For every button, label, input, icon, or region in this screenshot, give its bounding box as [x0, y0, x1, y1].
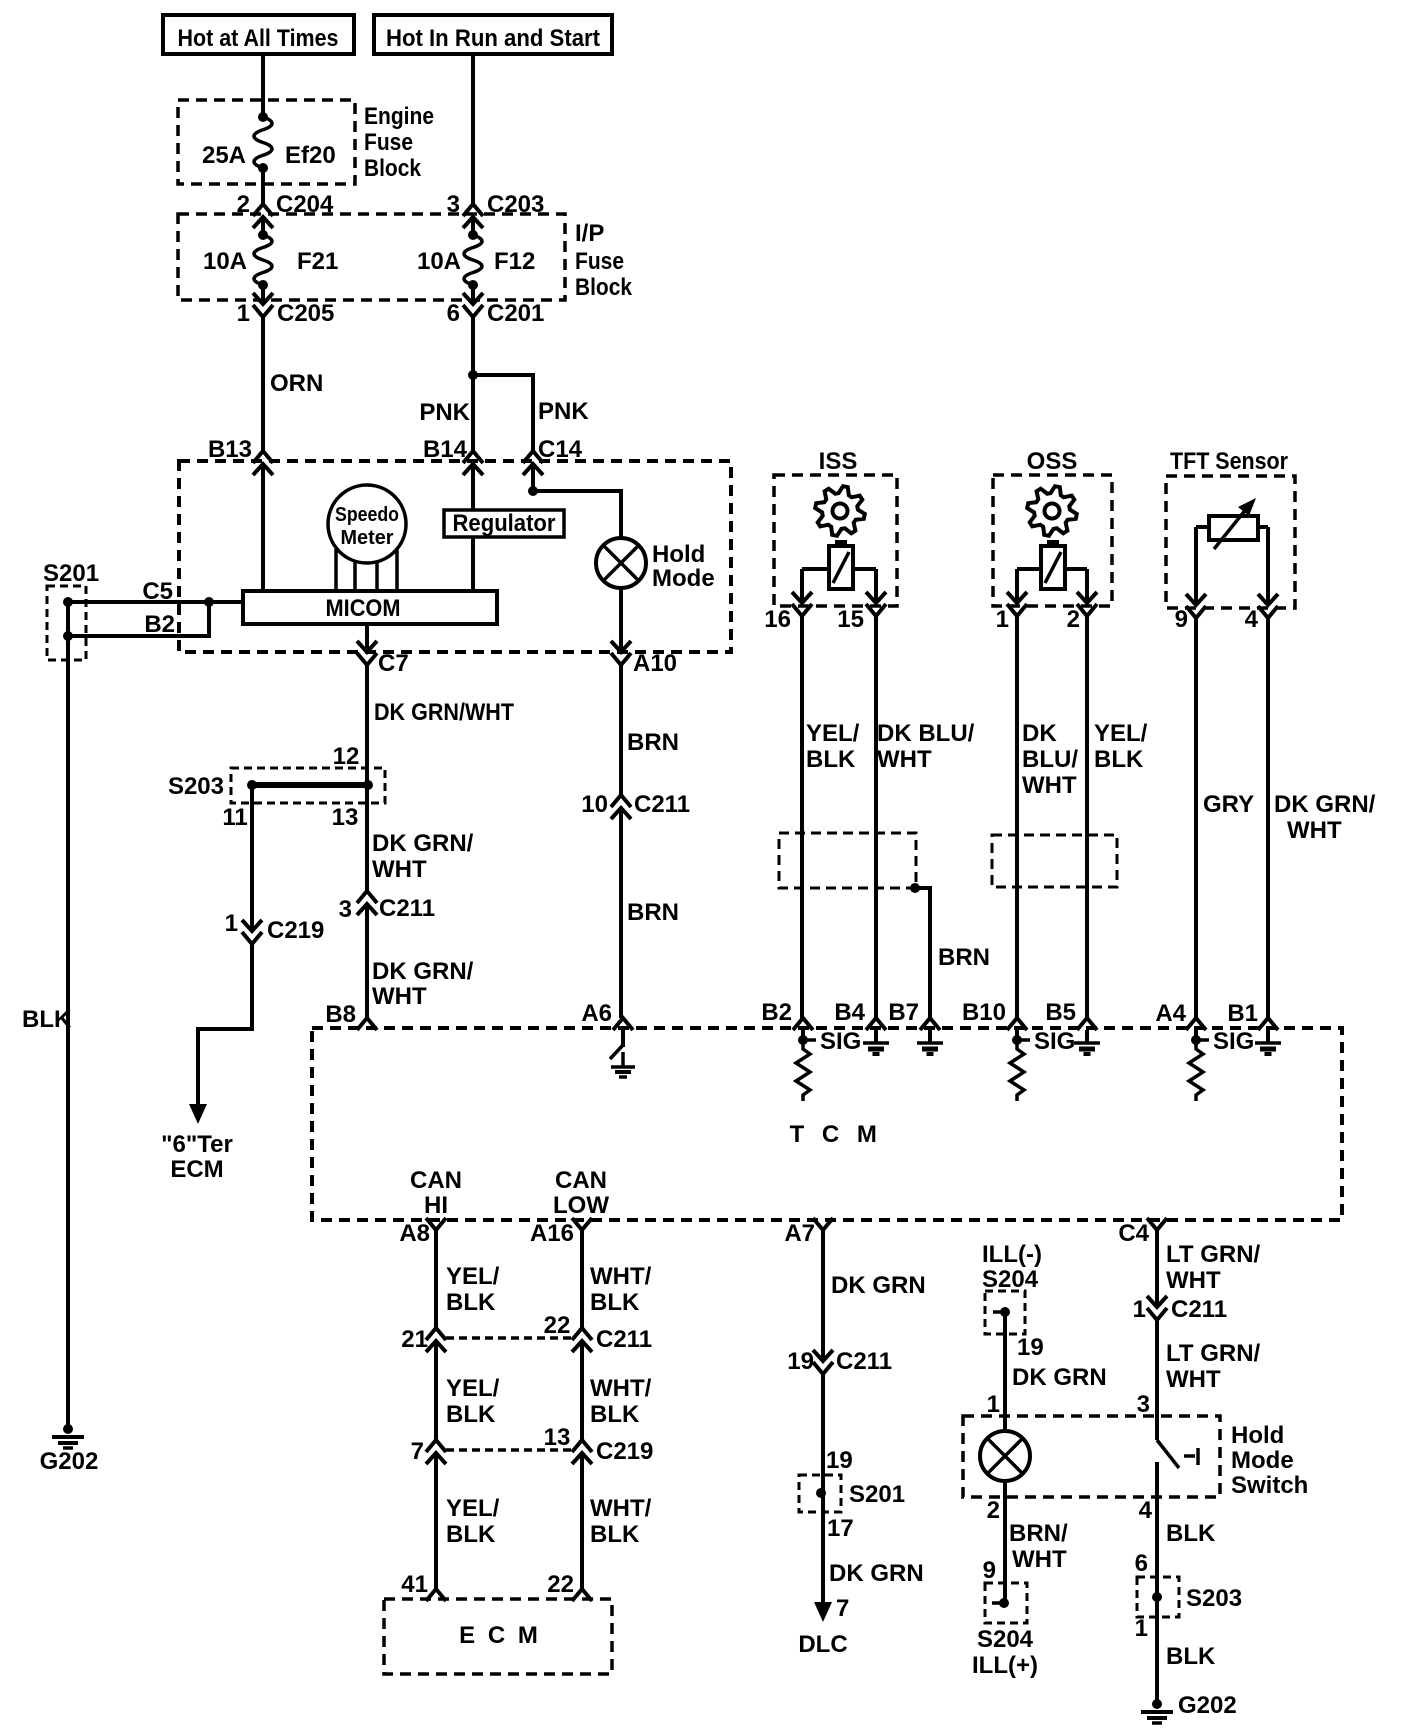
svg-text:C211: C211 [1171, 1296, 1227, 1323]
splice S203 box lower [1137, 1577, 1179, 1617]
svg-text:A7: A7 [784, 1220, 815, 1247]
svg-text:B4: B4 [834, 999, 865, 1026]
connector C211 pin 1 [1147, 1296, 1167, 1307]
svg-text:BLK: BLK [1094, 746, 1144, 773]
C211 connector link [446, 1336, 572, 1340]
ISS pin 15 [866, 592, 886, 603]
svg-text:B10: B10 [962, 999, 1006, 1026]
svg-text:Engine: Engine [364, 103, 434, 130]
wire PNK branch to C14 [473, 375, 533, 451]
svg-text:19: 19 [826, 1447, 853, 1474]
svg-text:C211: C211 [634, 791, 690, 818]
svg-text:BLK: BLK [446, 1401, 496, 1428]
regulator box [444, 510, 564, 537]
svg-text:WHT: WHT [1022, 772, 1077, 799]
svg-text:T C M: T C M [790, 1121, 883, 1148]
svg-text:CAN: CAN [555, 1167, 607, 1194]
svg-text:Regulator: Regulator [453, 510, 556, 537]
svg-text:YEL/: YEL/ [446, 1375, 500, 1402]
svg-text:41: 41 [401, 1571, 428, 1598]
svg-text:BRN: BRN [627, 729, 679, 756]
wire BLK from S201 to G202 [66, 660, 70, 1429]
svg-text:DLC: DLC [798, 1631, 847, 1658]
svg-text:1: 1 [1135, 1615, 1148, 1642]
svg-text:C211: C211 [836, 1348, 892, 1375]
wire DK GRN/WHT 4 to B1 [1266, 618, 1270, 1018]
svg-text:19: 19 [787, 1348, 814, 1375]
svg-text:BRN/: BRN/ [1009, 1520, 1068, 1547]
wire DK GRN/WHT 13 to C211 [365, 785, 369, 891]
ISS shield drain junction [910, 883, 920, 893]
fuse Ef20 25A [258, 112, 268, 122]
svg-text:DK GRN/: DK GRN/ [372, 958, 474, 985]
TFT thermistor [1209, 516, 1258, 540]
svg-text:C5: C5 [142, 578, 173, 605]
svg-text:Fuse: Fuse [364, 129, 413, 156]
svg-text:G202: G202 [1178, 1692, 1237, 1719]
svg-text:10: 10 [581, 791, 608, 818]
TFT Sensor dashed box [1166, 476, 1295, 608]
splice S203 box [231, 768, 385, 803]
wire C219 to 6Ter ECM arrow [198, 944, 252, 1110]
svg-text:BLK: BLK [1166, 1643, 1216, 1670]
svg-text:DK GRN/: DK GRN/ [1274, 791, 1376, 818]
svg-text:Hot In Run and Start: Hot In Run and Start [386, 25, 600, 52]
svg-text:S204: S204 [982, 1266, 1039, 1293]
TCM terminal A6 [613, 1018, 633, 1030]
svg-text:ILL(+): ILL(+) [972, 1652, 1038, 1679]
wire DK BLU/WHT 1 to B10 [1015, 616, 1019, 1018]
svg-text:S203: S203 [1186, 1585, 1242, 1612]
wire DK GRN/WHT C211 to B8 [365, 904, 369, 1018]
wire DK GRN/WHT C7 to S203 [365, 665, 369, 785]
svg-text:A6: A6 [581, 1000, 612, 1027]
connector C205 pin 1 [253, 293, 273, 304]
svg-text:10A: 10A [417, 248, 461, 275]
svg-text:DK GRN: DK GRN [1012, 1364, 1107, 1391]
ground G202 left [63, 1424, 73, 1434]
OSS pin 2 [1077, 592, 1097, 603]
TCM terminal B2 [793, 1018, 813, 1030]
svg-text:3: 3 [339, 896, 352, 923]
TFT pin 4 [1258, 594, 1278, 605]
svg-text:CAN: CAN [410, 1167, 462, 1194]
connector C211 pin 10 [611, 795, 631, 807]
OSS internal wires [1017, 567, 1041, 571]
svg-text:S204: S204 [977, 1626, 1034, 1653]
TCM B5 internal ground [1085, 1030, 1089, 1043]
wire fuse F21 to connector C205 [261, 285, 265, 304]
svg-text:I/P: I/P [575, 220, 604, 247]
TCM terminal B10 [1007, 1018, 1027, 1030]
svg-text:C205: C205 [277, 300, 334, 327]
connector A10 [611, 641, 631, 652]
wire BRN shield to B7 [915, 888, 930, 1018]
TCM terminal A16 [572, 1218, 592, 1230]
svg-text:BLK: BLK [446, 1289, 496, 1316]
svg-text:B2: B2 [144, 611, 175, 638]
svg-text:15: 15 [837, 606, 864, 633]
svg-text:PNK: PNK [419, 399, 470, 426]
svg-text:4: 4 [1139, 1497, 1153, 1524]
TCM terminal B5 [1077, 1018, 1097, 1030]
svg-text:B2: B2 [761, 999, 792, 1026]
svg-text:YEL/: YEL/ [446, 1263, 500, 1290]
TCM terminal A4 [1186, 1018, 1206, 1030]
svg-text:Block: Block [364, 155, 422, 182]
svg-text:1: 1 [237, 300, 250, 327]
TCM terminal A7 [813, 1218, 833, 1230]
ECM terminal 41 [426, 1589, 446, 1601]
wire junction to Hold Mode lamp [533, 491, 621, 538]
svg-text:25A: 25A [202, 142, 246, 169]
svg-text:DK GRN/: DK GRN/ [372, 830, 474, 857]
svg-text:9: 9 [1175, 606, 1188, 633]
svg-text:WHT/: WHT/ [590, 1375, 652, 1402]
wire DK GRN S204 to lamp pin 1 [1003, 1312, 1007, 1431]
junction on PNK wire [468, 370, 478, 380]
svg-text:C219: C219 [267, 917, 324, 944]
power feed box: Hot at All Times [163, 15, 354, 54]
wire B2 from S201 [68, 602, 209, 636]
svg-text:4: 4 [1245, 606, 1259, 633]
svg-text:DK GRN: DK GRN [831, 1272, 926, 1299]
svg-text:Mode: Mode [652, 565, 715, 592]
wire LT GRN/WHT C211 to switch pin 3 [1155, 1320, 1159, 1440]
svg-text:F21: F21 [297, 248, 338, 275]
TCM terminal A8 [426, 1218, 446, 1230]
OSS shield dashed box [992, 835, 1117, 887]
svg-text:G202: G202 [40, 1448, 99, 1475]
ISS pickup coil [829, 546, 853, 589]
svg-text:Switch: Switch [1231, 1472, 1308, 1499]
svg-text:LT GRN/: LT GRN/ [1166, 1340, 1261, 1367]
arrow to DLC pin 7 [814, 1602, 832, 1622]
connector B14 [463, 451, 483, 463]
svg-text:SIG: SIG [820, 1028, 861, 1055]
svg-text:C203: C203 [487, 191, 544, 218]
svg-text:A4: A4 [1155, 1000, 1186, 1027]
wire YEL/BLK 21 to 7 [434, 1341, 438, 1440]
hold mode switch lamp [980, 1431, 1030, 1481]
svg-text:9: 9 [983, 1557, 996, 1584]
TCM B7 internal ground [928, 1030, 932, 1043]
wire WHT/BLK 22 to 13 [580, 1341, 584, 1440]
wire BLK switch pin 4 to S203 [1155, 1497, 1159, 1617]
svg-text:B7: B7 [888, 999, 919, 1026]
svg-text:LOW: LOW [553, 1192, 609, 1219]
splice S204 box lower [985, 1583, 1027, 1623]
svg-text:DK: DK [1022, 720, 1057, 747]
svg-text:A8: A8 [399, 1220, 430, 1247]
wire C204 to fuse F21 [261, 217, 265, 235]
svg-text:22: 22 [544, 1312, 571, 1339]
TCM dashed box [312, 1028, 1342, 1220]
wire WHT/BLK 13 to ECM 22 [580, 1453, 584, 1589]
svg-text:WHT: WHT [372, 983, 427, 1010]
svg-text:C4: C4 [1118, 1220, 1149, 1247]
fuse F12 10A [468, 230, 478, 240]
svg-text:BRN: BRN [938, 944, 990, 971]
connector C211 pin 22 [572, 1328, 592, 1340]
svg-text:DK BLU/: DK BLU/ [877, 720, 975, 747]
wire LT GRN/WHT C4 to C211 [1155, 1230, 1159, 1307]
svg-text:B1: B1 [1227, 1000, 1258, 1027]
wire BRN/WHT lamp pin 2 to S204 [1003, 1481, 1007, 1603]
svg-text:Hot at All Times: Hot at All Times [178, 25, 339, 52]
svg-text:C211: C211 [379, 895, 435, 922]
svg-text:2: 2 [987, 1497, 1000, 1524]
connector C204 pin 2 [253, 204, 273, 216]
svg-text:17: 17 [827, 1515, 854, 1542]
wire GRY 9 to A4 [1194, 618, 1198, 1018]
svg-text:Fuse: Fuse [575, 248, 624, 275]
TCM terminal B1 [1258, 1018, 1278, 1030]
wire fuse Ef20 to connector C204 [261, 168, 265, 204]
Engine Fuse Block dashed box [178, 100, 355, 184]
fuse F21 10A [258, 230, 268, 240]
TCM B4 internal ground [874, 1030, 878, 1043]
svg-text:Hold: Hold [652, 541, 705, 568]
svg-text:Meter: Meter [341, 527, 394, 549]
svg-text:S203: S203 [168, 773, 224, 800]
svg-text:C211: C211 [596, 1326, 652, 1353]
wire YEL/BLK 16 to B2 [800, 616, 804, 1018]
C219 connector link [446, 1448, 572, 1452]
connector C211 pin 21 [426, 1328, 446, 1340]
svg-text:Ef20: Ef20 [285, 142, 336, 169]
svg-text:19: 19 [1017, 1334, 1044, 1361]
svg-text:3: 3 [447, 191, 460, 218]
ISS gear icon [815, 486, 865, 536]
wire from Hot at All Times to fuse Ef20 [261, 54, 265, 117]
svg-text:LT GRN/: LT GRN/ [1166, 1241, 1261, 1268]
svg-text:BLK: BLK [590, 1521, 640, 1548]
splice S201 box dlc [799, 1475, 841, 1512]
svg-text:TFT Sensor: TFT Sensor [1170, 448, 1288, 475]
svg-text:HI: HI [424, 1192, 448, 1219]
svg-text:BLK: BLK [590, 1401, 640, 1428]
wire B14 to Regulator [471, 464, 475, 510]
wire DK GRN C211 to S201 [821, 1374, 825, 1612]
svg-text:C7: C7 [378, 650, 409, 677]
wire YEL/BLK 2 to B5 [1085, 616, 1089, 1018]
splice S201 box [47, 586, 86, 660]
wire WHT/BLK A16 to 22 [580, 1230, 584, 1328]
wire MICOM to C7 [365, 624, 369, 652]
svg-text:B5: B5 [1045, 999, 1076, 1026]
svg-text:YEL/: YEL/ [1094, 720, 1148, 747]
svg-text:E C M: E C M [459, 1622, 541, 1649]
speedometer Speedo Meter [328, 485, 406, 563]
svg-text:BLK: BLK [1166, 1520, 1216, 1547]
ECM dashed box [384, 1599, 612, 1674]
TCM terminal B7 [920, 1018, 940, 1030]
svg-text:Block: Block [575, 274, 633, 301]
svg-text:F12: F12 [494, 248, 535, 275]
svg-text:S201: S201 [849, 1481, 905, 1508]
svg-text:C201: C201 [487, 300, 544, 327]
wire DK GRN A7 to C211 [821, 1230, 825, 1361]
svg-text:7: 7 [836, 1595, 849, 1622]
ISS internal wires [802, 567, 829, 571]
hold mode switch contact [1157, 1440, 1179, 1468]
ISS shield dashed box [779, 833, 916, 888]
svg-text:BRN: BRN [627, 899, 679, 926]
svg-text:3: 3 [1137, 1391, 1150, 1418]
svg-text:C14: C14 [538, 436, 583, 463]
svg-text:WHT: WHT [372, 856, 427, 883]
wire BRN C211 to A6 [619, 808, 623, 1018]
svg-text:1: 1 [1133, 1296, 1146, 1323]
wire BRN A10 to C211 [619, 665, 623, 795]
svg-text:BLK: BLK [22, 1006, 72, 1033]
svg-text:A10: A10 [633, 650, 677, 677]
wire DK BLU/WHT 15 to B4 [874, 616, 878, 1018]
svg-text:BLK: BLK [806, 746, 856, 773]
ISS pin 16 [792, 592, 812, 603]
hold mode indicator lamp [596, 538, 646, 588]
Hold Mode Switch dashed box [963, 1416, 1220, 1497]
svg-text:S201: S201 [43, 560, 99, 587]
splice S203 bus wire [247, 780, 257, 790]
connector C201 pin 6 [463, 293, 483, 304]
svg-text:B13: B13 [208, 436, 252, 463]
TFT pin 9 [1186, 594, 1206, 605]
connector C219 pin 1 [242, 920, 262, 931]
svg-text:GRY: GRY [1203, 791, 1254, 818]
wire C5 from S201 to MICOM [68, 600, 243, 604]
svg-text:11: 11 [222, 804, 247, 831]
TFT internal wires [1196, 525, 1209, 529]
svg-text:WHT: WHT [1287, 817, 1342, 844]
connector C219 pin 13 [572, 1440, 592, 1452]
svg-text:WHT: WHT [877, 746, 932, 773]
instrument cluster dashed box [179, 461, 731, 652]
svg-text:Hold: Hold [1231, 1422, 1284, 1449]
OSS pin 1 [1007, 592, 1027, 603]
wire Regulator to MICOM [471, 537, 475, 591]
TCM A6 internal ground [621, 1030, 625, 1047]
svg-text:"6"Ter: "6"Ter [161, 1131, 233, 1158]
svg-text:13: 13 [544, 1424, 571, 1451]
svg-text:WHT: WHT [1012, 1546, 1067, 1573]
svg-text:ILL(-): ILL(-) [982, 1241, 1042, 1268]
OSS gear icon [1027, 486, 1077, 536]
TCM A4 SIG pullup [1194, 1030, 1198, 1040]
wire ORN from C205 to B13 [261, 317, 265, 451]
I/P Fuse Block dashed box [178, 214, 565, 300]
svg-text:2: 2 [1067, 606, 1080, 633]
arrow to 6Ter ECM [189, 1104, 207, 1124]
connector C211 pin 3 [357, 891, 377, 903]
wire 11 to C219 [250, 785, 254, 931]
wire YEL/BLK A8 to 21 [434, 1230, 438, 1328]
svg-text:C219: C219 [596, 1438, 653, 1465]
svg-text:WHT/: WHT/ [590, 1263, 652, 1290]
svg-text:BLK: BLK [590, 1289, 640, 1316]
svg-text:DK GRN/WHT: DK GRN/WHT [374, 699, 514, 726]
wire YEL/BLK 7 to ECM 41 [434, 1453, 438, 1589]
svg-text:OSS: OSS [1027, 448, 1078, 475]
svg-text:Speedo: Speedo [335, 504, 399, 526]
ground G202 right [1152, 1699, 1162, 1709]
svg-text:Mode: Mode [1231, 1447, 1294, 1474]
TCM B10 SIG pullup [1015, 1030, 1019, 1040]
svg-text:ECM: ECM [170, 1156, 223, 1183]
wire BLK S203 to G202 [1155, 1617, 1159, 1704]
svg-text:B14: B14 [423, 436, 468, 463]
TCM terminal C4 [1147, 1218, 1167, 1230]
splice S201 dots [63, 597, 73, 607]
svg-text:B8: B8 [325, 1001, 356, 1028]
ISS sensor dashed box [774, 475, 897, 606]
svg-text:21: 21 [401, 1326, 428, 1353]
svg-text:WHT/: WHT/ [590, 1495, 652, 1522]
svg-text:12: 12 [333, 743, 360, 770]
svg-text:A16: A16 [530, 1220, 574, 1247]
TCM B1 internal ground [1266, 1030, 1270, 1043]
svg-text:PNK: PNK [538, 398, 589, 425]
svg-text:SIG: SIG [1034, 1028, 1075, 1055]
svg-text:1: 1 [987, 1391, 1000, 1418]
wire lamp to A10 [619, 588, 623, 652]
svg-text:MICOM: MICOM [326, 595, 401, 622]
svg-text:YEL/: YEL/ [446, 1495, 500, 1522]
connector C219 pin 7 [426, 1440, 446, 1452]
speedometer legs to MICOM [334, 549, 338, 591]
svg-text:13: 13 [332, 804, 359, 831]
connector C211 pin 19 [813, 1350, 833, 1361]
wire C14 to junction [531, 464, 535, 491]
TCM terminal B4 [866, 1018, 886, 1030]
svg-text:BLU/: BLU/ [1022, 746, 1078, 773]
wire B13 to MICOM [261, 464, 265, 591]
ECM terminal 22 [572, 1589, 592, 1601]
OSS sensor dashed box [993, 475, 1112, 606]
TCM terminal B8 [357, 1018, 377, 1030]
TCM B2 SIG pullup [801, 1030, 805, 1040]
connector C203 pin 3 [463, 204, 483, 216]
svg-text:BLK: BLK [446, 1521, 496, 1548]
connector B13 [253, 451, 273, 463]
svg-text:1: 1 [225, 910, 238, 937]
svg-text:ISS: ISS [819, 448, 858, 475]
wire from Hot In Run and Start to connector C203 [471, 54, 475, 204]
power feed box: Hot In Run and Start [374, 15, 612, 54]
svg-text:6: 6 [447, 300, 460, 327]
splice S204 box upper [985, 1291, 1025, 1334]
svg-text:7: 7 [411, 1438, 424, 1465]
OSS pickup coil [1041, 546, 1065, 589]
wire PNK from C201 to B14 [471, 317, 475, 451]
svg-text:6: 6 [1135, 1550, 1148, 1577]
svg-text:ORN: ORN [270, 370, 323, 397]
svg-text:16: 16 [764, 606, 791, 633]
connector C7 [357, 641, 377, 652]
connector C14 [523, 451, 543, 463]
svg-text:SIG: SIG [1213, 1028, 1254, 1055]
svg-text:22: 22 [547, 1571, 574, 1598]
wire C203 to fuse F12 [471, 217, 475, 235]
MICOM box [243, 591, 497, 624]
svg-text:10A: 10A [203, 248, 247, 275]
svg-text:WHT: WHT [1166, 1267, 1221, 1294]
svg-text:WHT: WHT [1166, 1366, 1221, 1393]
svg-text:YEL/: YEL/ [806, 720, 860, 747]
svg-text:1: 1 [996, 606, 1009, 633]
svg-text:DK GRN: DK GRN [829, 1560, 924, 1587]
